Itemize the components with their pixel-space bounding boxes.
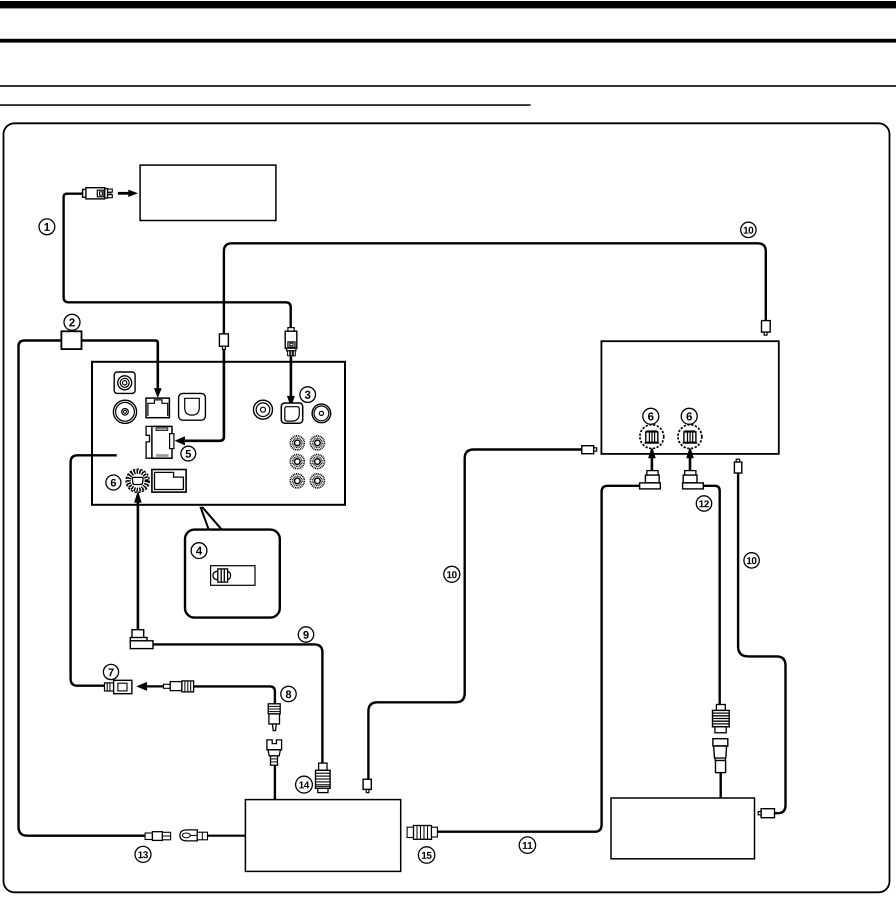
connector 5 body: [146, 426, 152, 458]
wire 13-15 link: spade male to bottom center box: [208, 835, 246, 837]
wire 5 lead: from small plug down to arrow into connector 5: [185, 350, 224, 441]
wire 3 arrow shaft: s-video plug to port 3: [290, 356, 293, 396]
callout inner rect: [211, 566, 255, 586]
RCA jack mid right: [254, 400, 273, 419]
arrowhead 6 into head unit DIN jack: [134, 491, 142, 503]
box: bottom right unit: [611, 798, 755, 859]
spade terminal male: [180, 830, 208, 841]
antenna barrel female (12): [713, 705, 730, 733]
label 11: [519, 837, 535, 853]
label 10 left: [444, 566, 460, 582]
elbow plug left under right unit: [640, 471, 661, 489]
label 6 head unit: [106, 475, 121, 490]
wire 8b: female RCA down into bottom center box: [274, 765, 276, 800]
wire 8: RCA male right then down to RCA plug: [194, 686, 275, 703]
head unit ports: [113, 372, 330, 492]
header rule full-width: [0, 85, 896, 87]
callout tail: [201, 508, 222, 530]
RCA female jack vertical (mate of 8): [267, 740, 282, 765]
wire 2 right: box 2 to arrow at RJ port: [82, 341, 158, 389]
connector 15: [407, 826, 437, 840]
six RCA grid: [290, 436, 324, 488]
wire 2 left: box 2 to far-left run down to terminal 13: [19, 341, 146, 836]
RJ45 small port (target of 2): [146, 398, 169, 418]
elbow plug right under right unit: [683, 471, 704, 489]
label 5: [181, 446, 196, 461]
connector 1: s-video male plug horizontal: [83, 188, 113, 199]
box: head unit rear panel: [92, 362, 345, 505]
label 12: [696, 496, 711, 511]
label 1: [39, 219, 55, 235]
wire 12: right elbow down to antenna barrel and into bottom right box: [703, 486, 720, 705]
mini-DIN jack head unit: [126, 469, 149, 492]
wire 11: connector 15 to right unit left elbow: [437, 486, 639, 832]
wire 10 right: plug below right unit down and around to bottom right box: [738, 473, 785, 813]
RCA male plug vertical (8): [268, 704, 280, 731]
right unit mini-DIN jacks: [640, 425, 702, 449]
label 8: [281, 686, 296, 701]
spade terminal 13 female: [145, 832, 171, 841]
RCA jack left: [113, 400, 136, 423]
plug: wire 10 right below right unit: [734, 459, 741, 473]
arrowhead 5 into connector 5: [175, 436, 185, 445]
wire 6 arrow shaft: head unit DIN jack down to elbow: [137, 502, 140, 631]
wire 7 lead: head unit left stub down to plug 7: [71, 455, 117, 685]
wire 6 arrows right unit: right: [689, 458, 692, 471]
callout plug icon: [213, 569, 231, 582]
arrowhead 6L into right unit left jack: [648, 446, 656, 458]
label 6 right unit left: [643, 408, 659, 424]
label 6 right unit right: [681, 408, 697, 424]
plug: wire 10 left at right unit left edge: [582, 446, 597, 454]
wire 12b: barrel male to bottom right box: [720, 773, 722, 799]
elbow connector: DIN right-angle plug at head unit: [130, 630, 153, 649]
label 14: [296, 776, 313, 793]
wire 1: monitor plug to port 3: [64, 194, 291, 328]
label 4: [191, 543, 207, 559]
plug: end of wire 10 top near head unit: [219, 334, 228, 350]
arrowhead into monitor box: [118, 190, 694, 691]
RCA male plug horizontal (8): [164, 681, 194, 692]
header bar thick top: [0, 1, 896, 8]
antenna jack square: [114, 372, 135, 393]
box: right unit (hide-away box): [601, 341, 778, 454]
RCA jack far right: [312, 404, 331, 423]
label 15: [418, 847, 434, 863]
arrowhead 7 into plug 7: [136, 682, 147, 691]
plug: wire 10 right at bottom right box: [758, 809, 774, 818]
arrowhead 3 into s-video port: [287, 396, 295, 407]
box: bottom center unit: [245, 800, 400, 872]
header rule partial: [0, 104, 531, 106]
label 10 top: [741, 222, 756, 237]
box: label box top (monitor): [140, 165, 276, 220]
plug: end of wire 10 top above right unit: [762, 321, 771, 336]
label 13: [135, 846, 151, 862]
label 2: [64, 314, 80, 330]
RJ45 big port: [152, 470, 186, 493]
arrowhead 2 into RJ port: [154, 388, 162, 398]
wire 7-8 link: arrow shaft to RCA male: [147, 685, 164, 687]
box 2: inline adapter: [61, 331, 81, 349]
plug: s-video male vertical into port 3: [285, 328, 297, 356]
label 9: [298, 627, 313, 642]
label 3: [300, 387, 316, 403]
wire 9: elbow to barrel connector 14: [153, 644, 322, 763]
toslink port: [179, 393, 206, 420]
antenna barrel male (12): [713, 739, 728, 773]
arrowhead 6R into right unit right jack: [686, 446, 694, 458]
s-video port 3: [281, 403, 302, 423]
label 10 right: [744, 553, 759, 568]
connector 7: DIN female: [105, 680, 132, 693]
label 7: [103, 664, 118, 679]
wire 6 arrows right unit: left: [651, 458, 654, 471]
wire 10 top: plug near head unit to plug above right unit: [224, 243, 766, 333]
header bar second: [0, 39, 896, 43]
plug: wire 10 left end above bottom center box: [363, 779, 371, 792]
callout box 4: [185, 530, 280, 618]
wire 10 left: plug at right unit left edge to plug above bottom center box: [368, 450, 581, 780]
barrel connector 14: [316, 763, 331, 793]
